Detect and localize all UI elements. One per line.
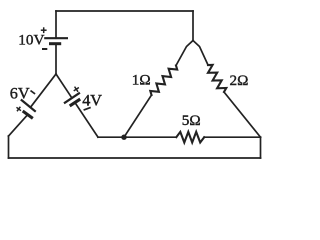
svg-text:1Ω: 1Ω bbox=[132, 71, 151, 88]
resistor R3 5ohm zigzag bbox=[176, 132, 204, 143]
wire 4V branch upper lead bbox=[56, 74, 72, 98]
wire top horizontal bbox=[56, 10, 193, 12]
minus sign for V3 bbox=[84, 107, 91, 110]
wire 1ohm lower lead to junction dot bbox=[124, 95, 152, 137]
wire bottom horizontal bbox=[9, 157, 261, 159]
svg-text:6V: 6V bbox=[10, 84, 30, 102]
wire 6V branch lower lead to left elbow bbox=[9, 115, 28, 136]
wire 1ohm upper lead from fork bbox=[176, 41, 193, 66]
battery V2 6V long plate bbox=[22, 100, 35, 111]
wire right vertical to fork bbox=[192, 11, 194, 41]
svg-text:10V: 10V bbox=[18, 32, 44, 49]
resistor R1 1ohm zigzag bbox=[150, 66, 177, 96]
svg-text:2Ω: 2Ω bbox=[230, 72, 249, 89]
minus sign for V1 bbox=[42, 48, 47, 50]
battery V3 4V long plate bbox=[65, 93, 79, 102]
svg-text:5Ω: 5Ω bbox=[182, 112, 201, 129]
wire battery V1 bottom lead to split node bbox=[55, 44, 57, 74]
minus sign for V2 bbox=[31, 91, 36, 94]
battery V2 6V short plate bbox=[24, 112, 32, 118]
wire middle horizontal to junction bbox=[98, 136, 176, 138]
plus sign for V1 bbox=[41, 27, 47, 33]
svg-text:4V: 4V bbox=[82, 91, 102, 109]
plus sign for V3 bbox=[72, 85, 81, 94]
wire 4V branch lower lead to bottom corner bbox=[75, 103, 98, 138]
battery V1 10V long plate bbox=[45, 37, 67, 39]
wire 6V branch upper lead bbox=[30, 74, 56, 107]
wire 2ohm upper lead from fork bbox=[193, 41, 208, 66]
wire left vertical bbox=[8, 136, 10, 158]
wire 2ohm lower lead to right corner bbox=[224, 92, 261, 137]
battery V1 10V short plate bbox=[51, 42, 60, 45]
junction dot node D bbox=[121, 135, 126, 140]
plus sign for V2 bbox=[15, 105, 23, 113]
wire 5ohm right lead bbox=[204, 136, 260, 138]
wire battery V1 top lead bbox=[55, 11, 57, 38]
battery V3 4V short plate bbox=[71, 100, 79, 105]
resistor R2 2ohm zigzag bbox=[208, 65, 226, 92]
wire right vertical bbox=[260, 137, 262, 158]
